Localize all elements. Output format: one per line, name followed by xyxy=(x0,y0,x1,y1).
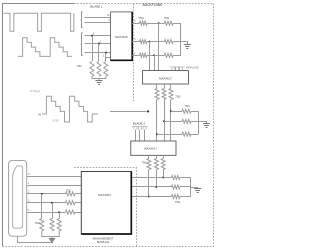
wire mux2 v2 down xyxy=(156,170,158,188)
wire tap2 into mux1 xyxy=(149,42,151,71)
node vga term tap 2 xyxy=(51,202,53,204)
wire backplane bus 1 xyxy=(156,100,158,142)
waveform RGB staircase xyxy=(18,38,72,57)
resistor vga series 4 75ohm xyxy=(66,201,75,205)
resistor vga term 2 75ohm xyxy=(50,219,54,231)
wire upper term row 3 b xyxy=(191,134,198,136)
wire vga row 2 xyxy=(27,185,82,187)
resistor mux2 out 1 75ohm xyxy=(147,159,151,170)
resistor mux1 out 3 75ohm xyxy=(169,89,173,100)
wire U1 input HSYNC xyxy=(85,17,111,19)
node blade2 wire end xyxy=(147,110,149,112)
node G input term junction xyxy=(98,43,100,45)
svg-text:75Ω: 75Ω xyxy=(175,95,180,99)
svg-text:MAX4954: MAX4954 xyxy=(98,193,111,197)
wire out row 2 b xyxy=(150,41,165,43)
svg-text:BLADE 2: BLADE 2 xyxy=(133,122,146,126)
resistor upper term 2 75ohm xyxy=(182,119,191,123)
svg-text:-0.3V: -0.3V xyxy=(52,119,60,123)
wire upper term rail xyxy=(198,111,200,134)
blade2 connector marks xyxy=(132,126,148,129)
wire out row 3 to tap xyxy=(147,55,154,57)
brace sync group xyxy=(81,12,83,29)
ground input terms xyxy=(96,81,103,85)
brace rgb group xyxy=(81,33,83,56)
resistor mux2 out 2 75ohm xyxy=(154,159,158,170)
wire vga term drop 2 xyxy=(52,203,54,219)
resistor out 2nd 1 75ohm xyxy=(164,21,173,25)
wire out row 1 c xyxy=(173,23,181,25)
resistor upper term 3 75ohm xyxy=(182,132,191,136)
resistor series out 2 75ohm xyxy=(140,40,147,44)
svg-text:75Ω: 75Ω xyxy=(66,188,71,192)
svg-text:BACKPLANE: BACKPLANE xyxy=(143,3,164,7)
resistor series out 3 75ohm xyxy=(140,53,147,57)
connector J1 inner dshell xyxy=(13,166,23,228)
wire backplane bus 3 xyxy=(170,100,172,142)
wire U1 input G xyxy=(85,43,111,45)
wire vga row 5 b xyxy=(75,212,81,214)
wire mgmt row 2 xyxy=(131,186,156,188)
resistor input term 1 75ohm xyxy=(90,62,94,77)
waveform sync square wave xyxy=(4,13,74,31)
management module dashed boundary xyxy=(74,168,137,247)
resistor input term 2 75ohm xyxy=(97,62,101,77)
node bus tap upper 3 xyxy=(156,133,158,135)
svg-text:MAX4617: MAX4617 xyxy=(159,76,172,80)
resistor mux1 out 2 75ohm xyxy=(162,89,166,100)
wire input term bus xyxy=(92,77,106,81)
wire tap3 into mux1 xyxy=(154,55,156,70)
wire mux2 v1 down xyxy=(148,170,150,197)
wire lower term row 3 a xyxy=(149,196,172,198)
wire lower term row 3 b xyxy=(180,196,191,198)
wire out row 1 to tap xyxy=(147,23,159,25)
node bus tap lower 3 xyxy=(148,196,150,198)
wire blade2 video source xyxy=(110,111,147,113)
node bus tap upper 2 xyxy=(163,120,165,122)
ground lower term xyxy=(194,189,201,193)
ground upper term xyxy=(203,124,210,128)
wire upper term row 2 b xyxy=(191,121,198,123)
wire lower rail to ground xyxy=(191,188,198,190)
svg-text:MAX4617: MAX4617 xyxy=(144,146,157,150)
wire lower term row 1 a xyxy=(163,177,171,179)
wire mux2 out stub 3 xyxy=(163,155,165,158)
mux U3 MAX4617 management xyxy=(131,141,176,155)
connector J1 VGA shell xyxy=(9,160,27,236)
wire mux1 out stub 2 xyxy=(164,84,166,89)
wire upper term row 2 a xyxy=(164,121,182,123)
wire out row 2 to tap xyxy=(147,41,150,43)
svg-text:75Ω: 75Ω xyxy=(76,64,81,68)
wire out row 2 c xyxy=(173,41,181,43)
wire blade2 conn stub 1 xyxy=(135,130,137,141)
wire mux2 v3 down xyxy=(163,170,165,178)
mux U2 MAX4617 blade1 xyxy=(143,71,189,84)
waveform blade2 video with sync xyxy=(42,96,98,122)
wire vga row 3 b xyxy=(75,193,81,195)
figure border solid left and top-left xyxy=(3,4,75,247)
wire R input drop xyxy=(92,36,94,61)
node out tap 2 xyxy=(149,41,151,43)
wire mux1 out stub 3 xyxy=(170,84,172,89)
resistor series out 1 75ohm xyxy=(140,21,147,25)
resistor lower term 1 75ohm xyxy=(171,176,180,180)
svg-text:75Ω: 75Ω xyxy=(35,221,40,225)
node R input term junction xyxy=(91,35,93,37)
svg-text:75Ω: 75Ω xyxy=(141,161,146,165)
ic U1 MAX4315 video driver xyxy=(111,12,133,60)
ground vga terms earth xyxy=(49,238,55,242)
svg-text:0.7Vp-p: 0.7Vp-p xyxy=(30,89,41,93)
wire mgmt row 1 xyxy=(131,177,163,179)
resistor out 2nd 2 75ohm xyxy=(164,40,173,44)
wire J1 shield tail xyxy=(18,236,54,242)
wire U1 input B xyxy=(85,52,111,54)
svg-text:75Ω: 75Ω xyxy=(175,200,180,204)
wire vga term drop 3 xyxy=(59,212,61,218)
wire out row 1 b xyxy=(159,23,165,25)
svg-text:BLADE 1: BLADE 1 xyxy=(90,5,103,9)
wire out row 3 b xyxy=(154,55,164,57)
wire U1 input VSYNC xyxy=(85,22,111,24)
wire lower term row 2 b xyxy=(180,186,191,188)
node B input term junction xyxy=(105,52,107,54)
wire mux2 out stub 1 xyxy=(148,155,150,158)
ic U4 MAX4954 kvm switch xyxy=(81,172,131,235)
wire out row 3 c xyxy=(173,55,181,57)
wire mgmt row 3 xyxy=(131,196,149,198)
node vga term tap 3 xyxy=(58,211,60,213)
wire vga row 1 xyxy=(27,176,82,178)
wire upper term row 1 a xyxy=(171,111,182,113)
resistor lower term 3 75ohm xyxy=(171,195,180,199)
wire vga row 4 a xyxy=(27,202,66,204)
wire U1 out row 2 xyxy=(132,41,139,43)
wire blade2 conn stub 3 xyxy=(144,130,146,141)
svg-text:75Ω: 75Ω xyxy=(138,16,143,20)
wire vga row 3 a xyxy=(27,193,66,195)
wire lower term rail xyxy=(190,178,192,197)
wire vga term drop 1 xyxy=(41,194,43,219)
wire U1 input R xyxy=(85,35,111,37)
midplane connector marks mux1 xyxy=(170,67,184,70)
wire backplane bus 2 xyxy=(164,100,166,142)
wire tap1 into mux1 xyxy=(158,23,160,70)
resistor lower term 2 75ohm xyxy=(171,185,180,189)
svg-text:MIDPLANE: MIDPLANE xyxy=(186,66,199,69)
wire lower term row 2 a xyxy=(156,186,171,188)
blade1 backplane dashed separator xyxy=(133,4,135,102)
svg-text:IN: IN xyxy=(38,113,41,117)
ground out rail xyxy=(184,45,191,49)
resistor vga term 3 75ohm xyxy=(57,219,61,231)
wire upper term row 3 a xyxy=(157,134,182,136)
wire upper rail to ground xyxy=(199,122,207,124)
resistor mux1 out 1 75ohm xyxy=(155,89,159,100)
wire out right rail xyxy=(180,23,182,55)
wire G input drop xyxy=(98,44,100,62)
svg-text:75Ω: 75Ω xyxy=(184,104,189,108)
wire U1 stub pin 2 xyxy=(105,57,111,59)
wire vga row 4 b xyxy=(75,202,81,204)
wire rail to ground xyxy=(181,42,188,45)
resistor upper term 1 75ohm xyxy=(182,109,191,113)
node bus tap lower 1 xyxy=(162,177,164,179)
svg-text:75Ω: 75Ω xyxy=(164,16,169,20)
wire upper term row 1 b xyxy=(191,111,198,113)
wire lower term row 1 b xyxy=(180,177,191,179)
wire mux2 out stub 2 xyxy=(156,155,158,158)
resistor vga term 1 75ohm xyxy=(40,219,44,231)
node vga term tap 1 xyxy=(41,193,43,195)
resistor input term 3 75ohm xyxy=(104,62,108,77)
node bus tap lower 2 xyxy=(155,186,157,188)
resistor out 2nd 3 75ohm xyxy=(164,53,173,57)
wire mux1 out stub 1 xyxy=(156,84,158,89)
wire vga row 5 a xyxy=(27,212,66,214)
node bus tap upper 1 xyxy=(170,110,172,112)
svg-text:MODULE: MODULE xyxy=(97,240,109,244)
wire vga term bus xyxy=(42,231,59,238)
node out tap 3 xyxy=(153,54,155,56)
node out tap 1 xyxy=(158,22,160,24)
wire blade2 conn stub 2 xyxy=(139,130,141,141)
resistor vga series 3 75ohm xyxy=(66,192,75,196)
resistor vga series 5 75ohm xyxy=(66,210,75,214)
wire U1 out row 1 xyxy=(132,23,139,25)
wire U1 out row 3 xyxy=(132,55,139,57)
resistor mux2 out 3 75ohm xyxy=(161,159,165,170)
svg-text:MAX4315: MAX4315 xyxy=(115,35,128,39)
figure border dashed top right bottom xyxy=(3,4,214,247)
wire B input drop xyxy=(105,53,107,61)
